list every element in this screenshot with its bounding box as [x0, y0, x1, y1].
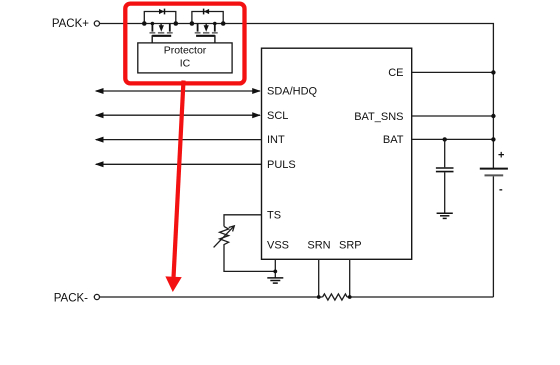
wire PACK- bottom rail right segment: [347, 296, 493, 298]
wire INT left arrow: [95, 137, 262, 143]
Protector IC box: [138, 43, 232, 73]
node dot Q1 source: [151, 22, 155, 26]
PACK- terminal: [94, 294, 99, 299]
svg-text:TS: TS: [267, 210, 281, 222]
svg-text:BAT: BAT: [383, 134, 404, 146]
svg-text:PULS: PULS: [267, 159, 296, 171]
resistor RSNS sense resistor: [323, 294, 348, 300]
svg-text:+: +: [498, 150, 504, 162]
wire PACK+ top rail to battery top: [100, 24, 494, 169]
capacitor C1: [436, 139, 454, 212]
svg-text:SDA/HDQ: SDA/HDQ: [267, 86, 318, 98]
node dot Q1 left: [142, 21, 147, 26]
svg-text:PACK-: PACK-: [54, 293, 88, 305]
node dot Q2 left: [190, 21, 195, 26]
node dot CE rail: [491, 70, 495, 74]
transistor Q2: [195, 24, 218, 33]
wire PULS left arrow: [95, 161, 262, 167]
PACK+ terminal: [94, 21, 99, 26]
gauge IC U1 box: [262, 48, 412, 259]
wire BAT to battery rail: [412, 138, 494, 140]
svg-text:SRP: SRP: [339, 239, 362, 251]
node dot BAT rail: [491, 137, 495, 141]
transistor Q1 body-diode loop: [144, 12, 176, 24]
wire TS to thermistor: [224, 215, 262, 227]
wire CE to battery rail: [412, 71, 494, 73]
svg-text:SRN: SRN: [307, 239, 330, 251]
wire VSS stub: [274, 259, 276, 278]
svg-text:PACK+: PACK+: [52, 18, 89, 30]
svg-text:BAT_SNS: BAT_SNS: [354, 111, 403, 123]
wire Q2 gate: [196, 35, 215, 37]
highlight box around protector circuit: [125, 4, 244, 84]
diode D2: [204, 9, 210, 15]
node dot Q2 right: [221, 21, 226, 26]
node dot BAT_SNS rail: [491, 114, 495, 118]
ground VSS: [267, 278, 283, 283]
red callout arrow: [165, 80, 192, 292]
wire PACK- bottom rail left segment: [100, 296, 323, 298]
wire SRN stub: [318, 259, 320, 297]
transistor Q1: [150, 24, 173, 33]
wire SRP stub: [349, 259, 351, 297]
node dot Q1 right: [174, 21, 179, 26]
svg-text:INT: INT: [267, 134, 285, 146]
transistor Q2 body-diode loop: [192, 12, 223, 24]
svg-text:-: -: [499, 183, 503, 195]
wire thermistor to VSS: [224, 247, 275, 272]
node dot BAT cap junction: [443, 137, 447, 141]
wire bus SDA/HDQ double arrow: [95, 88, 261, 94]
ground C1: [437, 213, 453, 218]
node dot Q2 source: [213, 22, 217, 26]
wire bus SCL double arrow: [95, 112, 261, 118]
thermistor RT1: [214, 226, 235, 248]
node dot SRN: [317, 295, 321, 299]
svg-text:CE: CE: [388, 67, 403, 79]
battery BT1: [480, 169, 508, 297]
wire Q1 gate: [152, 35, 171, 37]
svg-text:Protector: Protector: [164, 45, 207, 57]
wire BAT_SNS to battery rail: [412, 115, 494, 117]
node dot SRP: [348, 295, 352, 299]
svg-text:SCL: SCL: [267, 110, 288, 122]
svg-text:IC: IC: [180, 57, 191, 69]
svg-text:VSS: VSS: [267, 239, 289, 251]
node dot VSS: [273, 270, 277, 274]
diode D1: [159, 9, 165, 15]
